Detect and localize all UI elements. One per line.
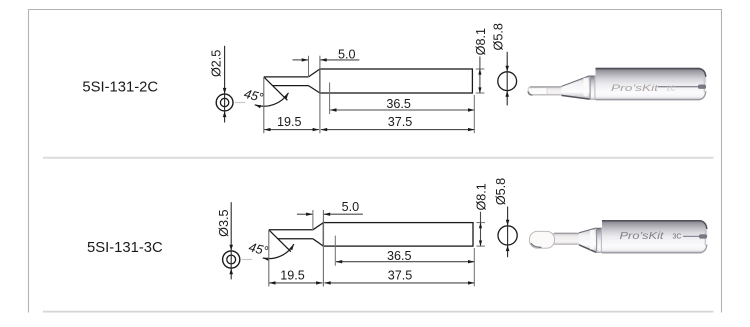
svg-text:3C: 3C [672,232,681,241]
row1 end-view centreline [223,46,227,123]
svg-text:Pro’sKit: Pro’sKit [611,83,659,93]
svg-text:45°: 45° [242,86,264,105]
row1 end-view leader line [235,102,246,104]
svg-text:2C: 2C [666,84,675,93]
svg-text:45°: 45° [247,239,269,258]
row2 dimension 19.5 [269,268,323,284]
row1 &#216;5.8 centreline [505,52,509,106]
row1 label Ø2.5 [210,50,224,77]
row2 dimension 36.5 [336,249,475,264]
svg-text:5SI-131-3C: 5SI-131-3C [87,240,163,256]
row1 photo: tip rod [527,86,562,95]
row1 shank end-view circle (&#216;5.8) [498,72,517,91]
row2 shank end-view circle (&#216;5.8) [498,226,517,245]
row1 45-degree angle arc [255,93,289,109]
row1 label 45deg [242,86,264,105]
svg-text:5.0: 5.0 [342,200,360,214]
row2 dimension 5.0 [297,200,363,216]
row2 end-view leader line [242,259,253,261]
bottom divider [43,311,714,313]
svg-text:37.5: 37.5 [388,268,413,282]
row1 tip profile outline [264,69,473,100]
row2 photo: chisel tip [530,231,555,248]
svg-text:19.5: 19.5 [277,115,302,129]
row1 end-view circle (Ø2.5) [216,94,233,111]
row2 photo: collar ring [590,227,602,253]
row1 label &#216;8.1 [474,28,488,55]
row2 tip profile outline [269,223,473,252]
svg-text:Ø2.5: Ø2.5 [210,50,224,77]
row2 label &#216;5.8 [494,178,508,205]
svg-text:Ø5.8: Ø5.8 [494,178,508,205]
row1 extension lines [264,56,485,134]
svg-text:5SI-131-2C: 5SI-131-2C [82,79,158,95]
svg-text:Ø8.1: Ø8.1 [474,28,488,55]
svg-text:37.5: 37.5 [388,115,413,129]
row1 label &#216;5.8 [492,23,506,50]
row2 photo: cone flare [579,228,596,252]
row1 photo: collar ring [584,75,596,100]
row2 end-view circle (Ø3.5) [223,251,240,268]
row2 photo: steel barrel [602,220,708,254]
svg-text:Ø8.1: Ø8.1 [475,183,489,210]
row2 45-degree angle arc [263,244,294,261]
svg-text:Ø3.5: Ø3.5 [217,210,231,237]
row2 end-view centreline [229,202,233,279]
row1 dimension 36.5 [330,97,475,112]
row1 dimension 5.0 [293,47,360,61]
row1 photo: steel barrel [596,68,707,101]
row1 dimension 19.5 [264,115,319,131]
svg-text:Pro’sKit: Pro’sKit [620,231,666,242]
svg-text:Ø5.8: Ø5.8 [492,23,506,50]
row2 dimension &#216;8.1 [479,212,482,247]
row2 label Ø3.5 [217,210,231,237]
row2 label 45deg [247,239,269,258]
svg-text:5.0: 5.0 [338,47,356,61]
row2 extension lines [269,210,485,287]
svg-text:19.5: 19.5 [280,268,305,282]
row divider [43,157,714,159]
row2 photo: tip rod [551,233,580,245]
row2 &#216;5.8 centreline [506,207,510,258]
row1 photo: cone flare [562,76,590,99]
row1 dimension 37.5 [321,115,475,131]
row2 dimension 37.5 [324,268,474,284]
svg-text:36.5: 36.5 [387,249,412,263]
row1 dimension &#216;8.1 [478,57,481,94]
row2 label &#216;8.1 [475,183,489,210]
svg-text:36.5: 36.5 [386,97,411,111]
